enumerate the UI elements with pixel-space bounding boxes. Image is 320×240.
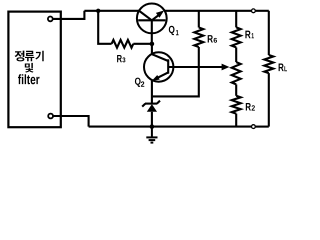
label R1 bbox=[245, 31, 254, 39]
wire: top rail, left segment bbox=[84, 10, 139, 12]
potentiometer element bbox=[232, 62, 241, 84]
text: filter bbox=[18, 74, 40, 84]
terminal: output + bbox=[252, 9, 256, 13]
wire: Q2 base to potentiometer wiper bbox=[168, 66, 223, 68]
wiper arrowhead bbox=[222, 64, 230, 71]
terminal: input + bbox=[48, 17, 53, 22]
label R2 bbox=[246, 103, 255, 111]
label RL bbox=[279, 64, 287, 72]
wire: RL to bottom rail bbox=[268, 73, 270, 127]
wire: top rail, middle segment bbox=[164, 10, 251, 12]
node: R3 tap on top rail bbox=[96, 9, 100, 13]
wire: input + to top rail bbox=[53, 11, 84, 19]
resistor R6 bbox=[198, 11, 200, 28]
wire: top rail to RL bbox=[268, 11, 270, 55]
zener diode bbox=[142, 81, 160, 127]
wire: top rail, right segment bbox=[256, 10, 269, 12]
label R6 bbox=[208, 35, 217, 43]
label Q1 bbox=[169, 26, 179, 35]
terminal: output − bbox=[252, 125, 256, 129]
rectifier/filter block bbox=[8, 12, 60, 128]
text: 및 (and) bbox=[25, 63, 34, 73]
transistor Q2 bbox=[144, 44, 173, 82]
wire: R2 to bottom rail bbox=[235, 114, 237, 127]
wire: R1 to potentiometer bbox=[235, 47, 237, 62]
wire: bottom rail, right segment bbox=[256, 126, 269, 128]
transistor Q1 bbox=[137, 4, 167, 44]
terminal: input − bbox=[48, 114, 53, 119]
wire: top rail to R1 bbox=[235, 11, 237, 28]
wire: potentiometer to R2 bbox=[235, 84, 237, 95]
resistor R1 bbox=[232, 27, 241, 47]
text: 정류기 (rectifier) bbox=[15, 51, 44, 62]
resistor R3 bbox=[112, 40, 134, 48]
node: ground junction bbox=[150, 124, 155, 129]
wire: R3 to Q1 base node bbox=[133, 43, 152, 45]
resistor R2 bbox=[232, 96, 241, 114]
node: Q1 base / Q2 collector junction bbox=[150, 42, 155, 47]
wire: R6 bottom to zener node bbox=[152, 47, 199, 96]
wire: input − to bottom rail bbox=[53, 116, 88, 127]
label R3 bbox=[117, 55, 125, 62]
label Q2 bbox=[135, 78, 144, 87]
wire: bottom rail, left segment bbox=[89, 126, 252, 128]
resistor RL bbox=[264, 55, 273, 73]
ground bbox=[146, 127, 157, 143]
wire: top rail down to R3 bbox=[98, 11, 111, 44]
